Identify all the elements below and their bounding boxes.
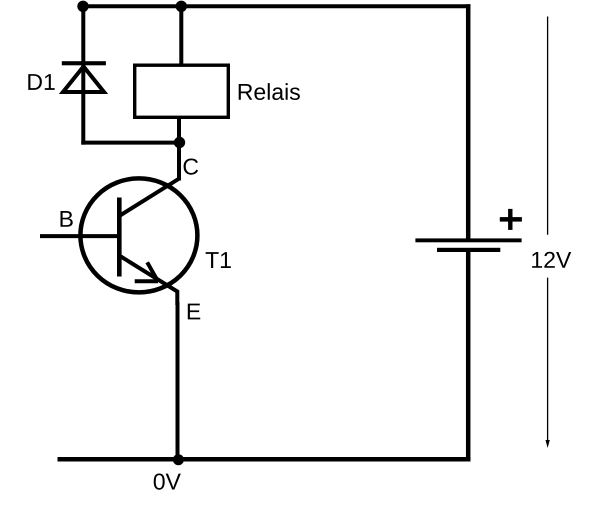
label Relais xyxy=(239,83,300,100)
arrow 12V span lower segment xyxy=(547,278,549,440)
label battery + polarity vertical bar xyxy=(508,209,512,230)
node junction emitter-ground xyxy=(173,454,184,465)
battery BT1 positive plate xyxy=(415,238,521,242)
arrow 12V span upper segment xyxy=(547,17,549,235)
wire relay top lead xyxy=(179,6,183,65)
node junction top relay branch xyxy=(176,1,187,12)
label E xyxy=(188,304,200,320)
node junction collector-diode xyxy=(174,137,185,148)
label C xyxy=(184,158,199,174)
label D1 xyxy=(28,74,54,90)
wire top rail xyxy=(81,4,471,8)
label B xyxy=(60,211,72,227)
wire battery positive lead xyxy=(466,4,471,240)
transistor T1 body circle xyxy=(80,178,197,292)
node junction top-left xyxy=(77,1,88,12)
wire battery negative lead xyxy=(466,250,471,461)
label 12V xyxy=(532,252,571,268)
diode D1 cathode bar xyxy=(62,61,106,65)
relay coil box xyxy=(135,65,229,117)
transistor T1 base bar xyxy=(117,198,122,277)
wire emitter drop xyxy=(176,302,180,461)
transistor T1 emitter arrowhead horizontal stroke xyxy=(135,279,158,283)
wire relay bottom to collector xyxy=(177,118,181,181)
label battery + polarity horizontal bar xyxy=(500,217,522,222)
arrow 12V arrowhead xyxy=(546,440,550,448)
wire ground rail xyxy=(58,457,471,462)
wire D1 to collector node xyxy=(81,141,181,145)
wire D1 branch vertical xyxy=(81,6,85,144)
transistor T1 collector stroke xyxy=(120,177,179,216)
diode D1 triangle xyxy=(63,67,104,93)
battery BT1 negative plate xyxy=(437,248,500,252)
wire base lead xyxy=(40,234,119,238)
transistor T1 emitter stroke xyxy=(120,256,177,305)
label 0V xyxy=(154,473,181,489)
transistor T1 emitter arrowhead slanted stroke xyxy=(147,262,158,281)
label T1 xyxy=(206,252,231,268)
